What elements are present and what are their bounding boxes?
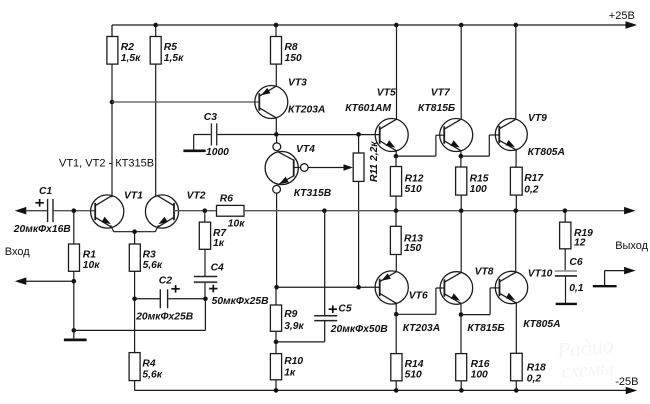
svg-text:КТ601АМ: КТ601АМ [345, 103, 391, 114]
resistor R7 [204, 211, 206, 222]
svg-text:5,6к: 5,6к [143, 260, 163, 271]
svg-text:VT3: VT3 [288, 77, 307, 88]
svg-text:C2: C2 [159, 275, 172, 286]
node: R9/R10/C5 [274, 340, 279, 345]
node: rail-R18 [514, 388, 519, 393]
VT5 collector wire to rail [396, 25, 398, 120]
ground symbol [73, 330, 75, 338]
resistor R17 [510, 167, 522, 195]
emitter junction wire [114, 231, 156, 233]
svg-text:VT1, VT2 - КТ315В: VT1, VT2 - КТ315В [59, 158, 154, 170]
wire VT7 emitter to VT9 base [461, 155, 489, 157]
wire corner to R2 [111, 25, 113, 37]
resistor R10 [275, 342, 277, 354]
svg-text:КТ315В: КТ315В [294, 188, 332, 199]
svg-text:+25В: +25В [609, 10, 635, 22]
node: rail-VT9 collector [514, 23, 519, 28]
node: rail-R5 [153, 23, 158, 28]
wire ground to C2/C4 node [74, 329, 206, 331]
resistor R15 [460, 156, 462, 167]
transistor VT2 (KT315V, mirrored) [145, 195, 178, 228]
svg-text:C6: C6 [569, 257, 582, 268]
svg-text:R6: R6 [220, 193, 233, 204]
svg-text:КТ815Б: КТ815Б [418, 103, 455, 114]
resistor R1 [73, 211, 75, 244]
svg-text:VT4: VT4 [296, 144, 315, 155]
svg-text:C3: C3 [204, 112, 217, 123]
svg-text:-25В: -25В [615, 376, 638, 388]
node: rail-R16 [459, 388, 464, 393]
transistor VT1 (KT315V) [91, 195, 124, 228]
svg-text:R4: R4 [142, 358, 155, 369]
svg-text:R8: R8 [285, 42, 298, 53]
node: ground junction [72, 328, 77, 333]
svg-text:R5: R5 [164, 42, 177, 53]
node: main wire / R15-VT8 [459, 208, 464, 213]
svg-text:VT2: VT2 [187, 191, 206, 202]
node: R11 top on VT5 base wire [356, 132, 361, 137]
node: main wire / R12-R13 [394, 208, 399, 213]
svg-text:1000: 1000 [206, 147, 229, 158]
resistor R19 [564, 211, 566, 222]
svg-text:C4: C4 [211, 263, 224, 274]
svg-text:5,6к: 5,6к [142, 370, 162, 381]
svg-text:20мкФх50В: 20мкФх50В [330, 324, 389, 335]
resistor R13 [395, 211, 397, 227]
svg-text:1к: 1к [284, 367, 296, 378]
VT1 emitter lead [111, 225, 114, 232]
svg-text:Вход: Вход [5, 246, 30, 258]
lower node wire VT4-R9-VT6 base [277, 286, 380, 288]
svg-text:VT9: VT9 [528, 113, 547, 124]
wire node to VT5 base [276, 134, 379, 136]
svg-text:C1: C1 [39, 186, 52, 197]
VT10 emitter to R18 [515, 303, 517, 354]
node: VT8 emitter / R16 [459, 312, 464, 317]
svg-text:R2: R2 [121, 42, 134, 53]
svg-text:3,9к: 3,9к [284, 321, 304, 332]
transistor VT9 (KT805A) [495, 119, 527, 151]
node: R11 bottom [356, 285, 361, 290]
svg-text:R10: R10 [284, 356, 303, 367]
VT6 collector down [395, 303, 397, 315]
node: rail-R10 [274, 388, 279, 393]
svg-text:50мкФх25В: 50мкФх25В [212, 296, 270, 307]
svg-text:10к: 10к [228, 219, 245, 230]
resistor R3 [134, 232, 136, 244]
node: VT6 collector / R14 [394, 312, 399, 317]
wire VT3 base [112, 101, 259, 103]
svg-text:Выход: Выход [615, 240, 648, 252]
node: VT5 emitter / R12 / VT7 base wire [394, 154, 399, 159]
svg-text:схемы: схемы [561, 357, 615, 383]
transistor VT7 (KT815B) [440, 119, 473, 152]
wire VT3 collector down to node [275, 117, 277, 134]
resistor R8 [275, 25, 277, 37]
output terminal arrow 2 (common) [624, 267, 636, 275]
node: rail-R14 [394, 388, 399, 393]
transistor VT4 (KT315V vbe multiplier) [276, 134, 278, 143]
+25V power rail [112, 24, 632, 26]
resistor R9 [275, 287, 277, 305]
node: C1 / R1 [72, 208, 77, 213]
transistor VT8 (KT815B) [440, 272, 473, 305]
potentiometer R11 2.2k [358, 134, 360, 153]
svg-text:12: 12 [574, 238, 586, 249]
input terminal arrow 1 [15, 207, 26, 215]
resistor R16 [460, 315, 462, 354]
svg-text:510: 510 [405, 184, 422, 195]
svg-text:0,1: 0,1 [569, 283, 584, 294]
svg-text:КТ815Б: КТ815Б [467, 323, 504, 334]
node: rail-VT7 collector [459, 23, 464, 28]
node: VT4 emitter / R9 [274, 285, 279, 290]
transistor VT3 (KT203A pnp) [255, 86, 288, 119]
resistor R5 [155, 25, 157, 37]
svg-text:0,2: 0,2 [527, 373, 542, 384]
node: VT1/VT2 emitters [132, 229, 137, 234]
svg-text:R9: R9 [284, 309, 297, 320]
input terminal arrow 2 [15, 277, 26, 285]
node: VT7 emitter / R15 [459, 154, 464, 159]
svg-text:VT6: VT6 [409, 290, 428, 301]
node: R2/VT3 base [110, 100, 115, 105]
svg-text:КТ203А: КТ203А [403, 323, 440, 334]
transistor VT10 (KT805A) [495, 271, 527, 303]
wire R5 to VT2 collector [155, 64, 157, 197]
svg-text:1к: 1к [213, 238, 225, 249]
wire R2 to VT1 collector [111, 64, 113, 197]
node: arrow2 [72, 279, 77, 284]
resistor R14 [395, 314, 397, 353]
svg-text:КТ203А: КТ203А [288, 104, 325, 115]
svg-text:КТ805А: КТ805А [528, 147, 565, 158]
node: VT3 collector / C3 / VT4 / R11 / VT5 base [274, 132, 279, 137]
svg-text:100: 100 [471, 370, 488, 381]
resistor R18 [511, 353, 523, 381]
svg-text:R11 2,2к: R11 2,2к [369, 141, 380, 182]
wire C1 to VT1 base [54, 210, 96, 212]
wire VT8 to VT10 base [461, 314, 490, 316]
node: main wire / R17-VT10 [514, 208, 519, 213]
svg-text:R17: R17 [524, 173, 544, 184]
node: C2/C4/ground wire [203, 297, 208, 302]
node: main wire / C5 riser [322, 208, 327, 213]
svg-text:КТ805А: КТ805А [523, 319, 560, 330]
resistor R2 [107, 37, 118, 65]
svg-text:VT5: VT5 [377, 88, 396, 99]
svg-text:R18: R18 [527, 362, 546, 373]
VT4 base lead with terminal circle [294, 167, 301, 169]
svg-text:20мкФх25В: 20мкФх25В [135, 311, 194, 322]
svg-text:VT10: VT10 [528, 269, 553, 280]
wire VT4 emitter down across to lower node [276, 193, 278, 287]
wire C5 to R9/R10 node [276, 341, 325, 343]
svg-text:VT1: VT1 [124, 191, 143, 202]
VT5 emitter wire [395, 150, 397, 156]
transistor VT5 (KT601AM) [375, 119, 408, 152]
svg-text:R14: R14 [405, 359, 424, 370]
svg-text:150: 150 [285, 53, 302, 64]
wire VT6 to VT8 base [396, 313, 436, 315]
svg-text:1,5к: 1,5к [164, 53, 184, 64]
wire VT2 base to R6 [174, 210, 217, 212]
svg-text:R16: R16 [471, 359, 490, 370]
transistor VT6 (KT203A pnp) [375, 271, 408, 304]
svg-text:VT7: VT7 [431, 88, 451, 99]
svg-text:1,5к: 1,5к [121, 53, 141, 64]
node: main wire / R19 [563, 208, 568, 213]
wire VT5 emitter to VT7 base [396, 155, 436, 157]
svg-text:150: 150 [404, 243, 421, 254]
wire R3 to C2 node to R4 [134, 271, 136, 352]
node: R3/C2 [132, 297, 137, 302]
capacitor C5 bootstrap riser [324, 211, 326, 316]
wire VT4 base to R11 wiper arrow [308, 167, 347, 169]
node: rail-R8 [274, 23, 279, 28]
svg-text:20мкФх16В: 20мкФх16В [13, 224, 72, 235]
node: rail-VT5 collector [394, 23, 399, 28]
resistor R12 [395, 156, 397, 166]
main output wire [244, 210, 625, 212]
svg-text:10к: 10к [83, 260, 100, 271]
svg-text:100: 100 [470, 184, 487, 195]
svg-text:VT8: VT8 [475, 267, 494, 278]
node: R6/R7 [203, 208, 208, 213]
wire R8 to VT3 emitter [275, 64, 277, 87]
svg-text:0,2: 0,2 [524, 184, 539, 195]
svg-text:C5: C5 [338, 303, 351, 314]
C3 terminal stub bar [183, 150, 205, 153]
C6 terminal bar [556, 303, 577, 305]
svg-text:510: 510 [405, 370, 422, 381]
resistor R4 [129, 353, 140, 381]
VT9 emitter to R17 [515, 150, 517, 168]
-25V power rail [135, 389, 628, 391]
